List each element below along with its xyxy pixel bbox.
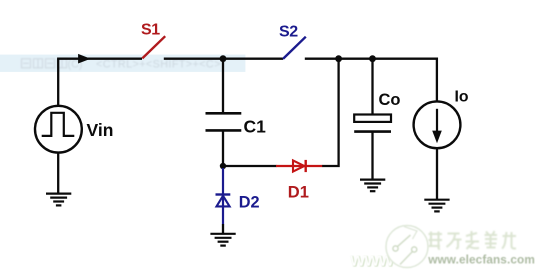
wire: Io bottom lead xyxy=(436,148,438,200)
ground below Co xyxy=(360,180,385,192)
wire: Vin top lead up to corner xyxy=(57,59,59,107)
diode D1 red lead xyxy=(276,165,323,167)
svg-text:D2: D2 xyxy=(239,194,260,212)
current source Io circle xyxy=(414,101,461,148)
ground below D2 xyxy=(210,234,235,246)
wire: D2 anode to ground (black) xyxy=(222,224,224,234)
wire: C1 top lead xyxy=(222,59,224,114)
ground below Io xyxy=(424,200,449,212)
switch S1 blade xyxy=(142,36,165,58)
capture tooltip band xyxy=(0,55,245,72)
svg-text:S1: S1 xyxy=(141,22,160,39)
svg-text:<CTRL>+<SHIFT>+<C>: <CTRL>+<SHIFT>+<C> xyxy=(96,58,221,70)
tooltip CJK glyph boxes xyxy=(22,59,67,68)
ground below Vin xyxy=(46,194,71,206)
pulse source Vin circle xyxy=(35,106,82,153)
diode D2 blue lead xyxy=(222,168,224,224)
diode D1 cathode bar xyxy=(305,160,307,172)
wire: Vin bottom lead xyxy=(57,153,59,194)
capacitor Co top plate (hollow) xyxy=(354,115,391,122)
wire: junction to D1 anode (black) xyxy=(223,165,277,167)
svg-text:C1: C1 xyxy=(244,116,267,136)
wire: Co bottom lead xyxy=(371,132,373,180)
node: C1 top junction xyxy=(220,55,227,62)
capacitor C1 plates xyxy=(206,112,242,115)
diode D2 cathode bar xyxy=(216,193,231,195)
diode D1 triangle xyxy=(293,160,304,171)
capacitor Co bottom plate xyxy=(354,130,391,133)
node: D1 top junction xyxy=(335,55,342,62)
pulse waveform xyxy=(42,113,75,136)
node: C1/D1/D2 junction xyxy=(220,163,226,169)
node: Co top junction xyxy=(369,55,376,62)
svg-text:Io: Io xyxy=(455,88,469,105)
svg-text:D1: D1 xyxy=(288,184,309,202)
wire: Co top lead xyxy=(371,59,373,115)
diode D2 triangle xyxy=(217,196,230,207)
Io arrow shaft xyxy=(436,109,438,133)
Io arrow head xyxy=(432,131,442,144)
watermark logo badge xyxy=(386,226,428,268)
svg-text:Co: Co xyxy=(379,91,401,109)
wire: S1 right contact to S2 left contact xyxy=(164,58,283,60)
current direction arrow xyxy=(78,54,91,64)
wire: S2 right contact to Io corner and down xyxy=(305,59,437,102)
svg-text:S2: S2 xyxy=(279,23,298,40)
wire: D1 cathode to riser (black) xyxy=(322,59,338,166)
svg-text:www.elecfans.com: www.elecfans.com xyxy=(427,252,535,266)
switch S2 blade xyxy=(283,37,306,59)
wire: top horizontal from corner to S1 left contact xyxy=(57,58,142,60)
svg-text:Vin: Vin xyxy=(87,120,114,140)
wire: C1 bottom lead xyxy=(222,130,224,166)
watermark CJK brand glyphs xyxy=(429,231,517,249)
